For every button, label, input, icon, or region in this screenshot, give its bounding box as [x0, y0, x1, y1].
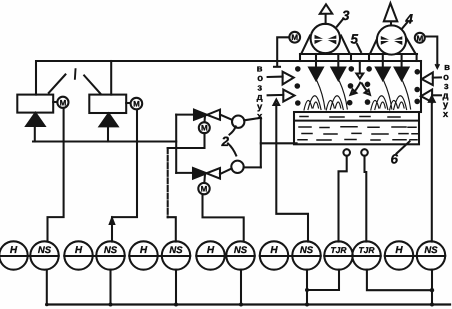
spray nozzle 2 [332, 54, 346, 80]
exhaust arrow of fan 4 [384, 3, 398, 25]
svg-text:М: М [291, 33, 298, 42]
flow arrow into feeder 1 [26, 113, 44, 142]
wire: dashed drop to NS3 [168, 148, 176, 242]
instrument pair line 6 [324, 255, 380, 257]
valve 2 [193, 168, 220, 179]
instrument pair line 1 [0, 255, 59, 257]
feeder rect 2 [89, 95, 126, 113]
instrument H2 [64, 241, 92, 269]
motor M of valve 1 [199, 116, 210, 134]
spray nozzle 4 [395, 54, 409, 80]
svg-text:NS: NS [300, 245, 314, 256]
air arrow left 2 [268, 90, 295, 102]
svg-text:М: М [201, 185, 208, 194]
motor M of feeder 2 [126, 98, 142, 110]
air arrow left 1 [268, 72, 294, 85]
distributor branch right [362, 84, 370, 95]
wire: feeder2 motor to NS2 [110, 109, 137, 241]
node 1 chute label [74, 69, 77, 79]
svg-text:М: М [60, 98, 67, 107]
air text left [257, 64, 264, 123]
spray nozzle 1 [309, 54, 323, 80]
wire: NS3 to bottom bus [175, 270, 177, 305]
instrument pair line 4 [196, 255, 254, 257]
node 4 label [405, 12, 414, 27]
svg-text:NS: NS [38, 245, 52, 256]
wire: top signal bus [36, 61, 277, 95]
node 6 label [391, 152, 399, 167]
motor M of fan 4 [415, 33, 439, 68]
feeder rect 1 [17, 95, 53, 113]
fan 4 [371, 25, 416, 54]
instrument NS3 [162, 241, 190, 269]
wire: NS4 to bottom bus [240, 270, 242, 305]
svg-text:NS: NS [104, 245, 118, 256]
tank [294, 112, 419, 144]
wire: feeder1 motor to NS1 [48, 108, 64, 242]
pump 2 [220, 161, 261, 174]
spray nozzle 3 [376, 54, 390, 80]
wire: valve1 motor control line [168, 133, 205, 148]
deck support a [299, 54, 301, 61]
instrument pair line 3 [129, 255, 190, 257]
leader from 2 to pump 1 [230, 127, 236, 135]
pipe: suction to valve 2 [176, 172, 193, 174]
svg-text:М: М [133, 100, 140, 109]
wire: bus drop to feeder 2 [110, 61, 112, 95]
deck support c [368, 54, 370, 61]
svg-text:NS: NS [234, 245, 248, 256]
tank water dashes [298, 117, 418, 141]
svg-text:х: х [443, 109, 449, 120]
wire: NS6 to bottom bus [431, 270, 433, 305]
pipe: suction to valve 1 [176, 114, 194, 116]
chamber right wall [420, 61, 422, 112]
left riser to NS5 [274, 100, 309, 242]
leader to 4 [403, 22, 409, 29]
svg-text:М: М [416, 34, 423, 43]
right riser to NS7 [429, 96, 435, 241]
spray plume 3 [371, 81, 392, 110]
fan 3 [302, 24, 350, 54]
air arrow right 2 [421, 90, 441, 103]
motor M of valve 2 [198, 174, 209, 194]
instrument NS4 [226, 241, 254, 269]
instrument H5 [260, 241, 288, 269]
instrument pair line 5 [260, 255, 321, 257]
pipe: water line to feeders [33, 140, 176, 142]
valve 1 [194, 110, 220, 120]
svg-text:М: М [201, 124, 208, 133]
air text right [442, 62, 450, 120]
instrument pair line 7 [385, 255, 445, 257]
pipe: discharge to tank [261, 142, 297, 144]
node 5 label [351, 32, 359, 47]
instrument NS6 [417, 241, 445, 269]
instrument H3 [129, 241, 157, 269]
chute diagonal right [84, 76, 101, 95]
wire: valve2 motor to NS4 [203, 194, 244, 241]
flow arrow into feeder 2 [100, 113, 118, 141]
bottom bus [47, 303, 450, 305]
wire: NS5 to bottom bus [306, 270, 308, 305]
fan deck line [300, 53, 417, 55]
svg-text:2: 2 [221, 134, 230, 149]
air arrow right 1 [422, 72, 441, 85]
leader to 6 [397, 142, 410, 154]
motor M of feeder 1 [53, 97, 68, 108]
wire: NS2 to bottom bus [109, 270, 111, 305]
wall dots left [295, 66, 301, 106]
tank temperature sensor 1 [343, 149, 350, 156]
instrument NS5 [292, 241, 320, 269]
wire: sensor 2 to TJR2 [365, 156, 367, 242]
instrument H6 [385, 241, 413, 269]
leader to 3 [337, 19, 344, 27]
svg-text:х: х [257, 111, 263, 122]
instrument NS1 [30, 241, 58, 269]
svg-text:Н: Н [10, 245, 18, 256]
instrument H4 [196, 241, 224, 269]
instrument H1 [0, 241, 28, 269]
svg-text:NS: NS [169, 245, 183, 256]
wire: TJR2 drop [367, 270, 432, 291]
svg-text:NS: NS [424, 245, 438, 256]
chute diagonal left [49, 75, 66, 93]
chamber top line [277, 60, 421, 62]
tank temperature sensor 2 [361, 149, 368, 156]
leader from 2 to pump 2 [228, 144, 236, 156]
deck support b [350, 54, 352, 61]
instrument NS2 [96, 241, 124, 269]
pump 1 [220, 115, 261, 128]
svg-text:Н: Н [395, 245, 403, 256]
wire: sensor 1 to TJR1 [339, 156, 347, 242]
deck support d [416, 54, 418, 61]
wire: TJR1 drop [307, 270, 339, 290]
svg-text:TJR: TJR [330, 245, 347, 255]
motor M of fan 3 [274, 32, 300, 67]
svg-text:Н: Н [75, 245, 83, 256]
svg-text:Н: Н [140, 245, 148, 256]
junction dots [45, 288, 434, 307]
spray plume 1 [304, 81, 325, 110]
node 3 label [342, 8, 350, 23]
leader to 5 [357, 44, 361, 52]
exhaust arrow of fan 3 [320, 4, 332, 24]
svg-text:Н: Н [207, 245, 215, 256]
middle dots [347, 66, 372, 105]
svg-text:Н: Н [270, 245, 278, 256]
instrument pair line 2 [64, 255, 124, 257]
wire: NS1 to bottom bus [46, 270, 48, 305]
instrument TJR2 [352, 241, 380, 269]
pipe: pump discharge header [260, 118, 262, 168]
svg-text:TJR: TJR [358, 245, 375, 255]
svg-text:3: 3 [342, 8, 350, 23]
distributor header arrow [356, 61, 363, 79]
wall dots right [414, 69, 420, 104]
spray plume 2 [326, 81, 347, 110]
instrument TJR1 [324, 241, 352, 269]
pipe: pump suction header [175, 115, 177, 173]
distributor branch left [351, 83, 361, 95]
spray plume 4 [390, 81, 411, 110]
node 2 pumps label [221, 134, 230, 149]
